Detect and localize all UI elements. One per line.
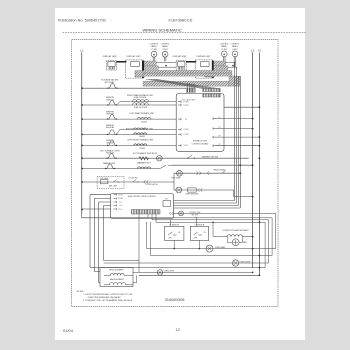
svg-text:N: N — [258, 49, 260, 53]
svg-text:AT 120VAC: AT 120VAC — [105, 81, 115, 84]
R8 contacts — [144, 180, 149, 184]
svg-text:MDL 160F: MDL 160F — [109, 185, 118, 187]
drop connector on R1 — [186, 83, 195, 92]
interconnect bar 1 — [116, 61, 126, 63]
ribbon band A2 — [214, 61, 226, 65]
svg-text:HOT SURF: HOT SURF — [171, 178, 181, 180]
R7 coil — [138, 167, 151, 169]
hatch block below display unit 2 — [135, 71, 144, 77]
svg-text:DISPLAY UNIT: DISPLAY UNIT — [196, 55, 211, 58]
box feed wires — [171, 217, 197, 226]
svg-text:LT SWITCH: LT SWITCH — [195, 225, 205, 227]
return y275.3 — [133, 275, 137, 283]
hatch block below display unit 4 — [205, 71, 214, 77]
EOC relay box — [163, 201, 171, 207]
svg-text:316080308: 316080308 — [165, 297, 186, 302]
svg-text:L1: L1 — [80, 49, 84, 53]
right nested return verticals — [265, 213, 276, 267]
svg-text:PANEL: PANEL — [162, 45, 168, 48]
svg-text:PANEL: PANEL — [232, 45, 238, 48]
connector bar display unit 4 — [212, 61, 214, 79]
svg-text:DISPLAY UNIT: DISPLAY UNIT — [127, 55, 142, 58]
display unit 1 box — [106, 61, 116, 70]
board output wire y107.2 to N — [224, 106, 259, 108]
svg-text:OVEN SENSOR: OVEN SENSOR — [185, 194, 199, 196]
convection fan motor — [232, 239, 239, 246]
svg-text:P4 RF: P4 RF — [184, 129, 189, 131]
svg-text:P2 RR: P2 RR — [184, 105, 190, 107]
R2 switch — [108, 101, 117, 105]
sensor bend to L2 — [234, 190, 253, 197]
svg-text:DOOR SW: DOOR SW — [129, 178, 138, 180]
display unit 4 box — [196, 60, 213, 78]
svg-text:SW DUAL: SW DUAL — [106, 126, 115, 129]
bake broil element box — [100, 268, 133, 287]
lamp rung y173.2 — [174, 172, 240, 174]
R3 switch — [108, 115, 117, 119]
ribbon bend block to bundle — [229, 76, 240, 86]
svg-text:WIRING SCHEMATIC: WIRING SCHEMATIC — [143, 27, 182, 32]
svg-text:2. CONTINUITY RTD - AT 70F AM: 2. CONTINUITY RTD - AT 70F AMBIENT IN AL… — [83, 299, 133, 302]
svg-text:Publication No. 5995401790: Publication No. 5995401790 — [58, 19, 106, 23]
L1 bottom bend — [82, 214, 148, 218]
svg-text:P4: P4 — [120, 205, 122, 207]
svg-text:BROIL ELEMENT: BROIL ELEMENT — [109, 270, 124, 272]
svg-text:RIGHT FRONT SURFACE UNIT: RIGHT FRONT SURFACE UNIT — [126, 128, 154, 131]
svg-text:DISPLAY UNIT: DISPLAY UNIT — [172, 55, 187, 58]
svg-text:DOOR LATCH: DOOR LATCH — [146, 183, 158, 186]
R7 switch — [106, 164, 115, 169]
rung R2 dual upper wire — [117, 102, 176, 105]
svg-text:LT SWITCH: LT SWITCH — [169, 225, 179, 227]
svg-text:CONTROL BOARD: CONTROL BOARD — [192, 142, 209, 145]
R5 switch — [108, 141, 117, 145]
bus L1 — [81, 53, 83, 215]
notes block — [77, 291, 133, 302]
ribbon fan to board connector — [146, 79, 220, 89]
return rung y267.6 — [100, 267, 265, 269]
return rung y255.5 — [151, 255, 273, 257]
wire bundle right side — [234, 62, 236, 201]
svg-text:P3: P3 — [120, 202, 122, 204]
ribbon band C (double) — [143, 70, 232, 73]
rung R1 anti-tip — [82, 87, 186, 89]
svg-text:* BROIL RELAY: * BROIL RELAY — [213, 168, 227, 171]
board top connector rows — [203, 89, 221, 92]
oven sensor rung y190 — [174, 189, 234, 191]
bundle bends to EOC right edge — [174, 201, 241, 209]
board output wire y145.7 to N — [216, 145, 259, 147]
EOC left harness verticals — [82, 195, 111, 209]
oven light switch box 1 — [165, 226, 184, 240]
ribbon band B2 — [214, 66, 228, 70]
R4 coil — [134, 133, 147, 135]
R4 switch — [108, 130, 117, 134]
R2 coil — [133, 103, 149, 105]
svg-text:P5 L1: P5 L1 — [118, 209, 122, 211]
svg-text:WARMER UNIT: WARMER UNIT — [137, 162, 151, 165]
svg-text:P3: P3 — [185, 119, 187, 121]
svg-text:CONVECTION HEAT ELEMENT: CONVECTION HEAT ELEMENT — [222, 229, 249, 232]
control panel lamp 1 — [150, 44, 159, 62]
control panel lamp 2 — [161, 44, 170, 62]
svg-text:OVEN LIGHT: OVEN LIGHT — [164, 271, 176, 273]
R1 switch — [108, 84, 117, 88]
svg-text:LIGHT: LIGHT — [232, 49, 238, 51]
bus L2 — [252, 53, 254, 268]
oven lamp rung y248.6 — [147, 222, 151, 256]
display unit 3 box — [176, 61, 186, 70]
svg-text:OVEN LAMP: OVEN LAMP — [215, 246, 226, 249]
board right pins — [213, 117, 216, 146]
oven light switch box 2 — [190, 226, 208, 240]
svg-text:1200W: 1200W — [139, 148, 145, 150]
control panel lamp 4 — [231, 44, 240, 67]
connector bar display unit 2 — [142, 61, 144, 79]
R8 dashed enclosure — [97, 176, 124, 188]
bus N — [258, 53, 260, 276]
EOC left pins — [114, 194, 117, 211]
R6 switch — [107, 154, 116, 159]
svg-text:SURFACE UNIT: SURFACE UNIT — [193, 140, 208, 143]
svg-text:P1 RR: P1 RR — [184, 101, 190, 103]
harness bends into bake/broil box — [90, 261, 139, 283]
rung R8 oven door — [82, 181, 174, 183]
svg-text:P6 LF: P6 LF — [184, 145, 189, 147]
ribbon band E (wide) — [143, 81, 229, 86]
svg-text:LEFT FRONT SURFACE UNIT: LEFT FRONT SURFACE UNIT — [128, 139, 155, 142]
electronic oven control box — [111, 194, 174, 219]
page — [55, 8, 305, 340]
svg-text:1. CIRCUIT SHOWN WITH ALL CON: 1. CIRCUIT SHOWN WITH ALL CONTROLS SET T… — [83, 293, 133, 296]
svg-text:HOT SURFACE INDICATOR: HOT SURFACE INDICATOR — [133, 152, 158, 155]
rung R4 dual upper wire — [117, 129, 176, 134]
rung R6 hot surface indicator — [82, 157, 249, 159]
ribbon band A1 — [144, 61, 156, 65]
R6 lamp — [157, 155, 163, 161]
svg-text:DUAL 1K/2KW: DUAL 1K/2KW — [134, 96, 147, 99]
svg-text:LIGHT: LIGHT — [162, 49, 168, 51]
svg-text:L2: L2 — [251, 49, 255, 53]
svg-text:WARMER UNIT SW: WARMER UNIT SW — [202, 155, 218, 158]
oven light rung y263 — [104, 262, 269, 264]
svg-text:1800W: 1800W — [139, 136, 145, 138]
svg-text:DISPLAY UNIT: DISPLAY UNIT — [103, 55, 118, 58]
rung R7 warmer unit — [82, 168, 160, 170]
svg-text:OVEN LIGHT: OVEN LIGHT — [240, 261, 252, 263]
svg-text:P5 RF: P5 RF — [184, 134, 189, 136]
control panel lamp 3 — [220, 44, 229, 62]
header rule — [63, 32, 307, 34]
rung R4 left front surface unit — [82, 133, 176, 135]
svg-text:DUAL 1K/2.2KW: DUAL 1K/2.2KW — [134, 106, 148, 109]
rung R5 — [82, 144, 176, 146]
R6 resistor — [139, 157, 149, 160]
surface unit control board — [176, 94, 224, 152]
EOC bottom connector — [132, 210, 161, 215]
svg-text:LT. SW.: LT. SW. — [151, 49, 158, 51]
interconnect bar 2 — [186, 61, 196, 63]
rung R2 right front surface unit — [82, 104, 176, 106]
EOC bottom fan wires — [139, 213, 276, 272]
svg-text:LT. SW.: LT. SW. — [221, 49, 228, 51]
svg-text:NOTES:: NOTES: — [77, 291, 85, 293]
board output wire y118.6 to L2 — [216, 118, 253, 120]
ribbon band B1 — [144, 66, 158, 70]
board left pins — [178, 100, 181, 146]
board output wire y137.1 to N — [216, 136, 259, 138]
warmer feed line y165.2 — [172, 164, 253, 166]
rung R3 left rear surface unit — [82, 118, 176, 120]
svg-text:OFF: OFF — [194, 238, 197, 240]
svg-text:1200W: 1200W — [141, 121, 147, 123]
svg-text:ELECTRONIC OVEN CONTROL: ELECTRONIC OVEN CONTROL — [128, 196, 157, 198]
svg-text:BAKE ELEMENT: BAKE ELEMENT — [110, 278, 125, 281]
R3 coil — [138, 118, 151, 120]
svg-text:12: 12 — [176, 327, 181, 332]
svg-text:MOTOR: MOTOR — [192, 215, 199, 217]
display unit 2 box — [126, 60, 143, 78]
door lock motor — [179, 211, 184, 216]
svg-text:PANEL: PANEL — [221, 45, 227, 48]
board output wire y128.6 to L2 — [216, 128, 253, 130]
svg-text:LEFT REAR SURFACE UNIT: LEFT REAR SURFACE UNIT — [130, 112, 156, 115]
R7 diagonal switch to upper line — [160, 165, 172, 168]
svg-text:PUSH PINS SUPER AND UNLOADED.: PUSH PINS SUPER AND UNLOADED. — [88, 296, 122, 299]
svg-text:FLEF398CCD: FLEF398CCD — [169, 19, 193, 23]
schematic border — [72, 40, 279, 307]
svg-text:01/04: 01/04 — [63, 328, 74, 333]
element box out wires — [133, 271, 139, 273]
svg-text:OFF: OFF — [168, 238, 171, 240]
R5 coil — [134, 144, 147, 146]
svg-text:PANEL: PANEL — [151, 45, 157, 48]
